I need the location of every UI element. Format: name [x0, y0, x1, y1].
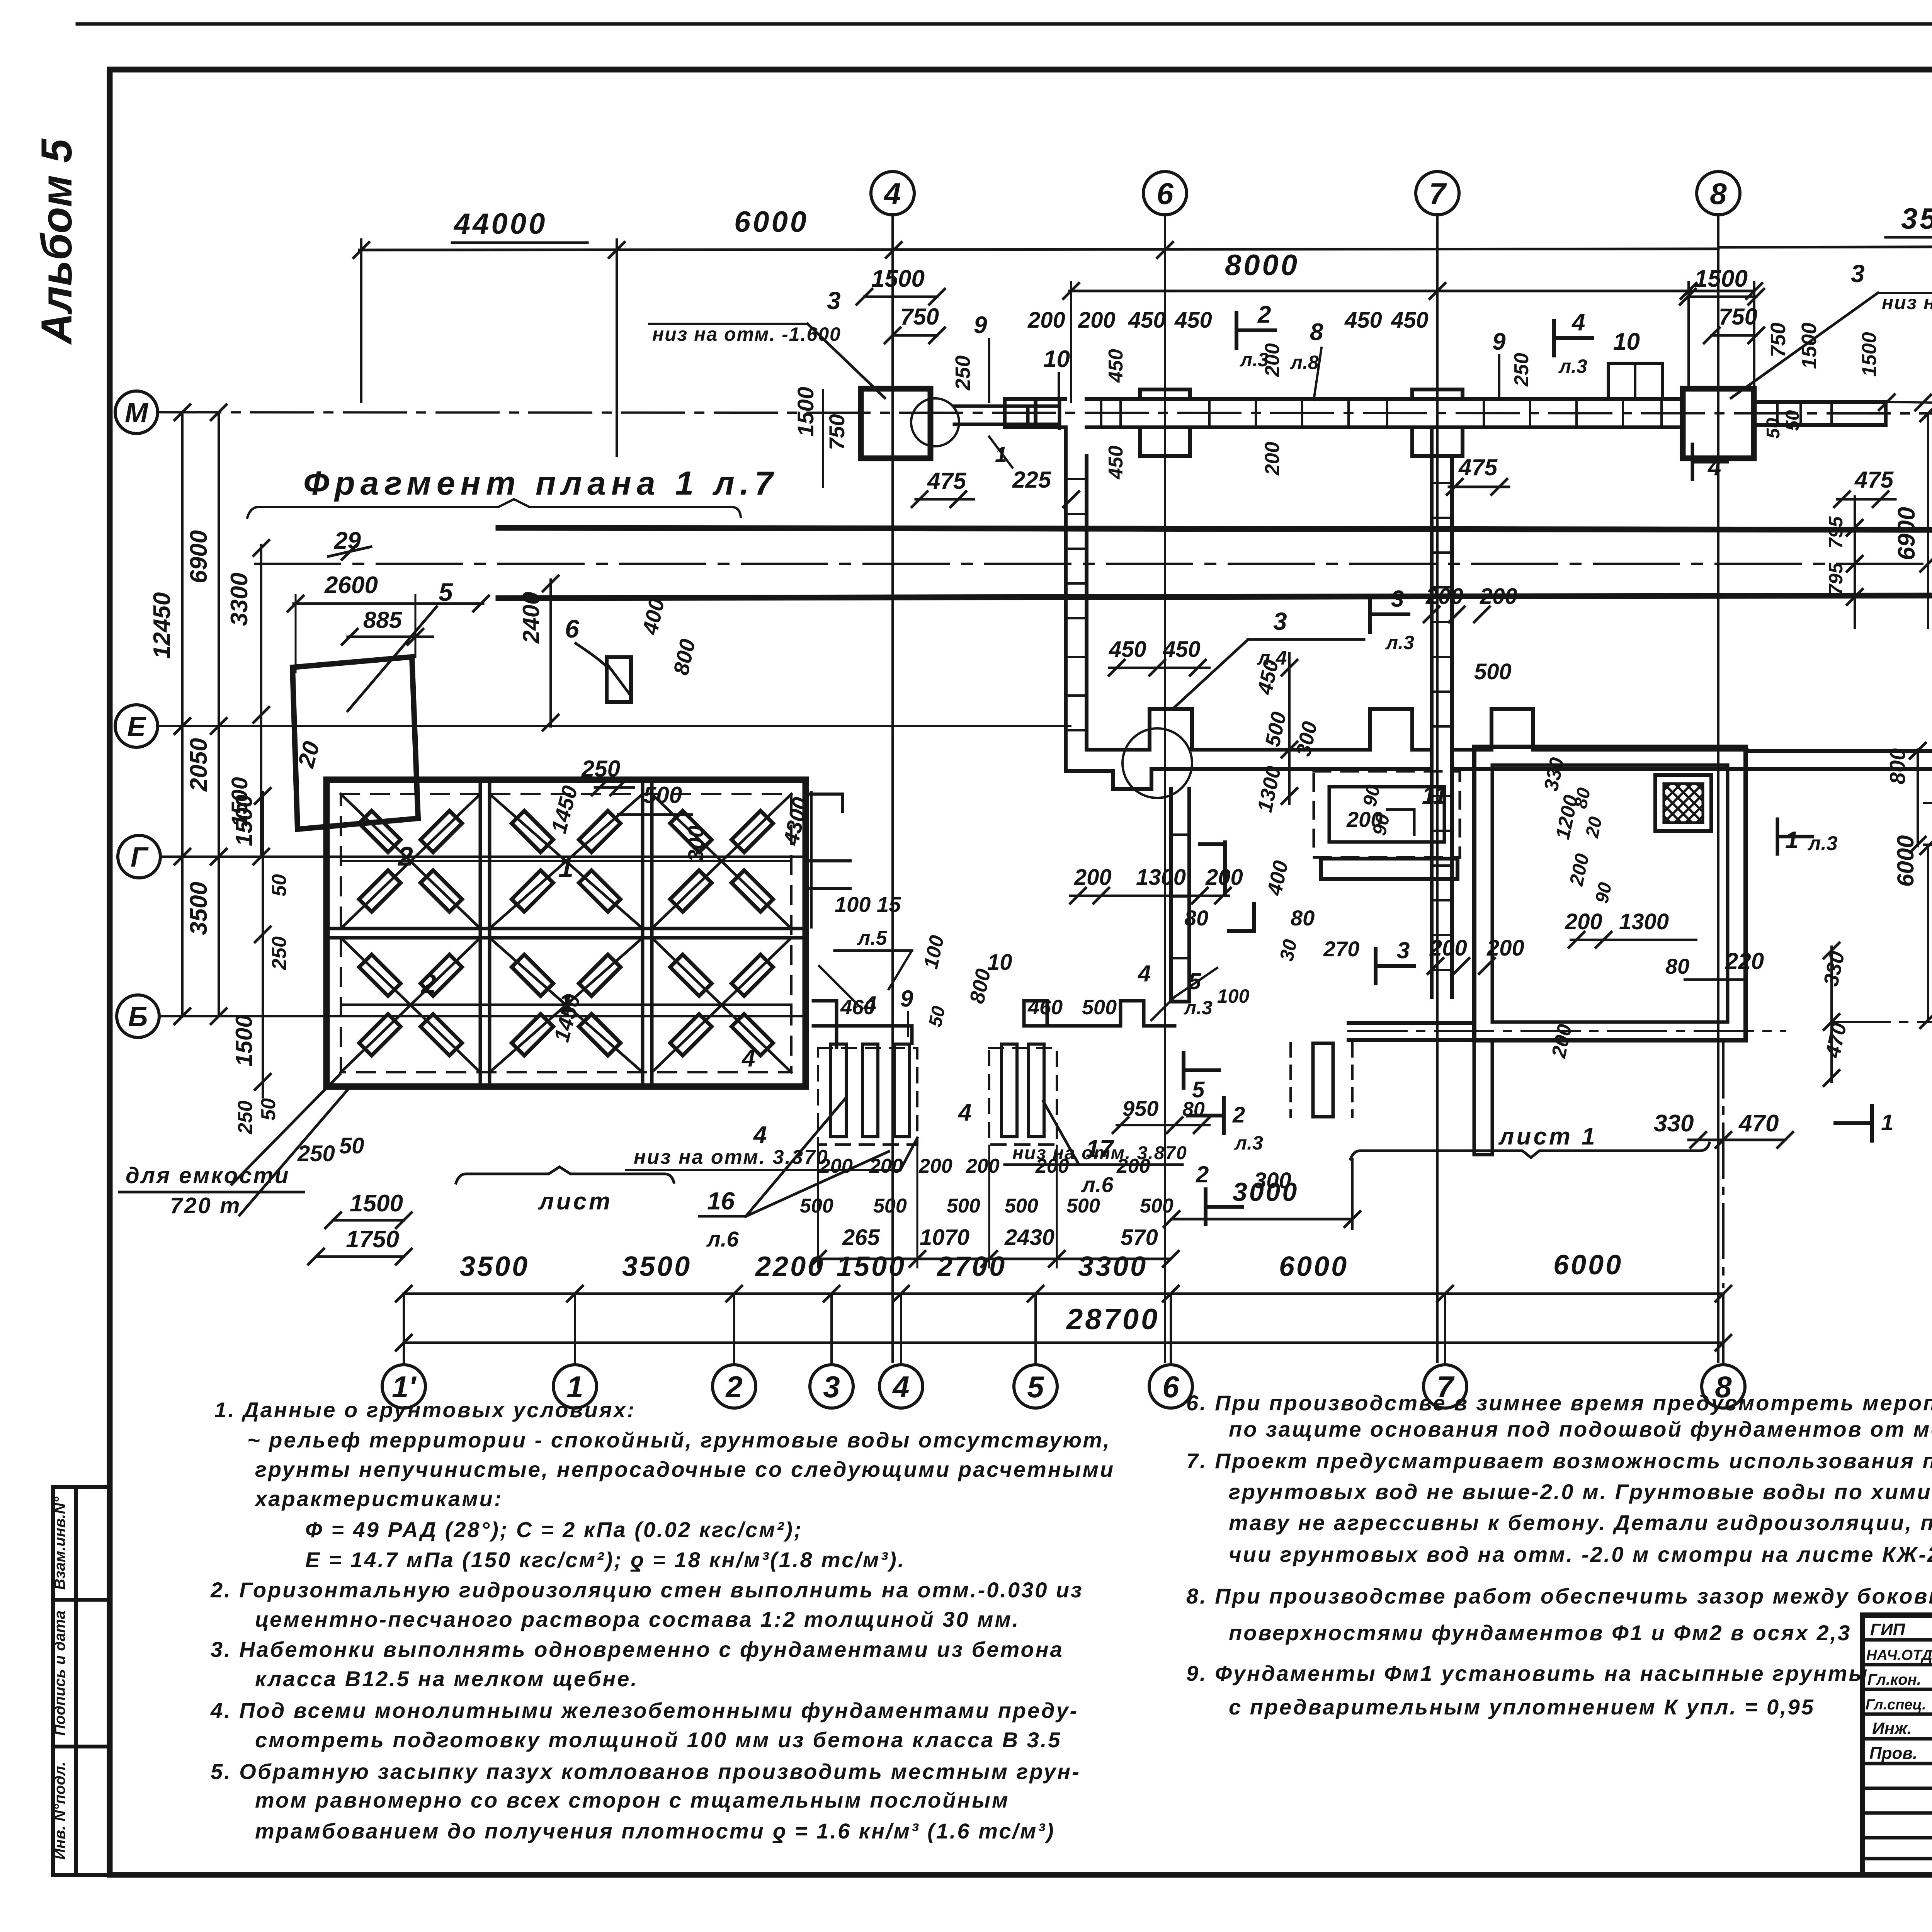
dim chain top 44000/6000 — [359, 249, 1718, 250]
svg-text:1: 1 — [558, 853, 573, 883]
svg-text:200: 200 — [1027, 308, 1065, 333]
svg-text:250: 250 — [581, 756, 620, 782]
svg-text:450: 450 — [1128, 308, 1166, 333]
svg-text:475: 475 — [927, 468, 967, 494]
svg-text:3: 3 — [827, 287, 841, 315]
svg-text:1500: 1500 — [793, 387, 818, 437]
svg-text:800: 800 — [1885, 748, 1910, 784]
svg-text:100 15: 100 15 — [835, 892, 901, 917]
svg-text:по защите основания под по: по защите основания под подошвой фундаме… — [1229, 1417, 1932, 1441]
foundation F1 square at axis 8 — [1683, 389, 1754, 458]
1500 dims left of M right circle — [1887, 402, 1932, 403]
svg-text:450: 450 — [1105, 349, 1127, 383]
svg-text:л.3: л.3 — [1184, 997, 1213, 1019]
svg-text:3: 3 — [823, 1370, 840, 1404]
svg-text:3500: 3500 — [622, 1251, 692, 1282]
svg-text:250: 250 — [234, 1100, 257, 1134]
axis circle 5 bottom — [1014, 1365, 1057, 1408]
svg-text:5: 5 — [1027, 1370, 1044, 1404]
svg-text:2: 2 — [1196, 1162, 1209, 1187]
svg-text:трамбованием до получения п: трамбованием до получения плотности ƍ = … — [255, 1819, 1055, 1843]
corner mark — [1200, 842, 1254, 931]
title block outer — [1862, 1615, 1932, 1875]
svg-text:720 т: 720 т — [170, 1193, 241, 1218]
svg-text:28700: 28700 — [1066, 1303, 1160, 1336]
svg-text:1500: 1500 — [227, 777, 252, 827]
room foundation walls axes 7-8 — [1474, 747, 1746, 1040]
notes column 2 — [1186, 1391, 1932, 1719]
dim chain 8000 between axes 6-7 — [1070, 290, 1754, 293]
svg-text:том равномерно со всех сто: том равномерно со всех сторон с тщательн… — [255, 1788, 1009, 1812]
svg-text:3: 3 — [1391, 586, 1404, 612]
tank foundation inner dashed — [341, 794, 791, 1072]
strip foundation row M main — [1087, 399, 1682, 427]
svg-text:смотреть подготовку толщиной: смотреть подготовку толщиной 100 мм из б… — [255, 1728, 1062, 1752]
svg-text:250: 250 — [951, 355, 975, 391]
axis E horizontal line — [158, 725, 1070, 727]
svg-text:450: 450 — [1174, 308, 1212, 333]
svg-text:6000: 6000 — [1553, 1250, 1623, 1281]
svg-text:8: 8 — [1715, 1370, 1732, 1404]
svg-text:с предварительным уплотнение: с предварительным уплотнением К упл. = 0… — [1229, 1695, 1815, 1719]
svg-text:3300: 3300 — [1078, 1251, 1148, 1282]
svg-text:450: 450 — [1391, 308, 1429, 333]
svg-text:1': 1' — [392, 1370, 417, 1404]
dim chain top right 3500/5000 — [1718, 246, 1932, 247]
small pit walls below tank right — [813, 1001, 912, 1047]
svg-text:Г: Г — [131, 842, 149, 873]
pit left wall ties — [1066, 479, 1087, 730]
svg-text:200: 200 — [1346, 807, 1383, 832]
svg-text:200: 200 — [1425, 584, 1463, 609]
svg-text:1300: 1300 — [1619, 909, 1669, 934]
tank cell diagonals — [341, 794, 791, 1072]
svg-text:80: 80 — [1665, 954, 1689, 978]
svg-text:л.3: л.3 — [1558, 355, 1587, 377]
svg-text:грунтовых вод не выше-2.0 м: грунтовых вод не выше-2.0 м. Грунтовые в… — [1229, 1480, 1932, 1504]
svg-text:характеристиками:: характеристиками: — [254, 1486, 503, 1511]
svg-text:11: 11 — [1422, 782, 1447, 809]
svg-text:Е = 14.7 мПа (150 кгс/см²);: Е = 14.7 мПа (150 кгс/см²); ƍ = 18 кн/м³… — [305, 1548, 905, 1572]
svg-text:2050: 2050 — [185, 738, 212, 792]
svg-text:200: 200 — [869, 1155, 903, 1177]
svg-text:9: 9 — [1492, 328, 1506, 355]
svg-text:Подпись и дата: Подпись и дата — [51, 1611, 68, 1736]
svg-text:5. Обратную засыпку пазух: 5. Обратную засыпку пазух котлованов про… — [211, 1759, 1081, 1784]
svg-text:220: 220 — [1725, 948, 1764, 974]
svg-text:500: 500 — [873, 1195, 907, 1217]
svg-text:6000: 6000 — [734, 206, 809, 238]
svg-text:10: 10 — [1613, 328, 1640, 355]
svg-text:200: 200 — [918, 1155, 952, 1177]
svg-text:низ на отм. -1.600: низ на отм. -1.600 — [652, 323, 841, 345]
axis A line — [1832, 1021, 1932, 1023]
svg-text:795: 795 — [1825, 562, 1847, 595]
pit bottom wall with bump — [1087, 709, 1432, 750]
svg-text:80: 80 — [1291, 906, 1315, 930]
svg-text:200: 200 — [1261, 343, 1284, 377]
svg-text:200: 200 — [966, 1155, 1000, 1177]
svg-text:Инж.: Инж. — [1872, 1719, 1912, 1738]
svg-text:750: 750 — [825, 414, 849, 450]
svg-text:Гл.кон.: Гл.кон. — [1867, 1671, 1921, 1688]
svg-text:1500: 1500 — [871, 265, 925, 292]
svg-text:1500: 1500 — [1694, 265, 1748, 292]
svg-text:2: 2 — [1257, 301, 1271, 328]
axis circle 1 bottom — [553, 1365, 597, 1408]
svg-text:470: 470 — [1738, 1110, 1779, 1137]
svg-text:л.6: л.6 — [1081, 1172, 1114, 1197]
svg-text:475: 475 — [1854, 467, 1894, 493]
svg-text:1500: 1500 — [350, 1190, 403, 1217]
svg-text:270: 270 — [1323, 937, 1359, 961]
svg-text:5: 5 — [1188, 968, 1202, 994]
svg-text:4: 4 — [957, 1099, 971, 1126]
svg-text:9. Фундаменты Фм1 установи: 9. Фундаменты Фм1 установить на насыпные… — [1186, 1661, 1869, 1685]
section flag 3 200 200 (upper) — [1370, 597, 1408, 632]
axis B horizontal line — [160, 1015, 808, 1017]
tank cell dividers — [327, 780, 806, 1087]
svg-text:460: 460 — [840, 996, 875, 1019]
svg-text:2. Горизонтальную гидроизоляц: 2. Горизонтальную гидроизоляцию стен вып… — [210, 1578, 1083, 1602]
svg-text:НАЧ.ОТД: НАЧ.ОТД — [1866, 1647, 1932, 1663]
svg-text:300: 300 — [1254, 1168, 1291, 1193]
svg-text:Б: Б — [128, 1002, 148, 1032]
svg-text:поверхностями фундаментов Ф1: поверхностями фундаментов Ф1 и Фм2 в ося… — [1229, 1621, 1851, 1645]
svg-text:500: 500 — [800, 1195, 833, 1217]
svg-text:475: 475 — [1458, 454, 1498, 480]
svg-text:4: 4 — [892, 1370, 909, 1404]
hatched pit inside room — [1655, 775, 1711, 831]
svg-text:6: 6 — [565, 614, 580, 643]
axis 7 wall ties — [1432, 483, 1452, 970]
piles below room axis 7 — [1474, 1040, 1492, 1155]
title block signature table rows — [1862, 1638, 1932, 1642]
svg-text:2400: 2400 — [518, 592, 544, 644]
axis circle 8 top — [1697, 172, 1740, 215]
svg-text:грунты непучинистые, непроса: грунты непучинистые, непросадочные со сл… — [255, 1457, 1115, 1481]
svg-text:500: 500 — [1066, 1195, 1100, 1217]
svg-text:44000: 44000 — [453, 207, 547, 240]
svg-text:750: 750 — [1767, 323, 1790, 357]
svg-text:4: 4 — [753, 1122, 767, 1148]
rail line 2 — [498, 595, 1932, 598]
walls piece with 460 500 — [1024, 1001, 1175, 1026]
svg-text:1: 1 — [1881, 1110, 1893, 1135]
tank right side step walls — [806, 794, 850, 889]
small rect above strip (axis 7-8) — [1608, 363, 1662, 399]
svg-text:200: 200 — [1565, 909, 1602, 934]
svg-text:9: 9 — [900, 986, 913, 1012]
svg-text:л.5: л.5 — [857, 927, 888, 949]
room 11 dashed foundation — [1314, 771, 1460, 857]
svg-text:8: 8 — [1310, 319, 1323, 345]
svg-text:чии грунтовых вод на отм.: чии грунтовых вод на отм. -2.0 м смотри … — [1229, 1542, 1932, 1566]
svg-text:6900: 6900 — [185, 530, 212, 583]
axis circle М left — [115, 391, 158, 434]
svg-text:7: 7 — [1429, 177, 1447, 211]
axis circle 2 bottom — [713, 1365, 756, 1408]
svg-text:л.3: л.3 — [1234, 1132, 1263, 1154]
axis circle 7 bottom — [1423, 1365, 1467, 1408]
axis circle 4 top — [871, 172, 914, 215]
svg-text:200: 200 — [819, 1155, 853, 1177]
svg-text:450: 450 — [1163, 637, 1201, 662]
svg-text:750: 750 — [1719, 304, 1757, 330]
svg-text:3: 3 — [1273, 607, 1287, 635]
svg-text:4: 4 — [1707, 454, 1721, 481]
svg-text:6. При производстве в зим: 6. При производстве в зимнее время преду… — [1186, 1391, 1932, 1415]
svg-text:М: М — [125, 398, 149, 429]
dims 3 200 200 lower — [1376, 949, 1414, 983]
svg-text:4: 4 — [1571, 309, 1585, 336]
room 11 lower wall — [1321, 859, 1458, 879]
strip bulges at axis 6 — [1140, 389, 1190, 456]
section flag 4 l.3 — [1554, 321, 1592, 355]
svg-text:1070: 1070 — [920, 1225, 969, 1250]
axis circle 4 bottom — [879, 1365, 923, 1408]
svg-text:Ф = 49 РАД (28°); С = 2 кП: Ф = 49 РАД (28°); С = 2 кПа (0.02 кгс/см… — [305, 1517, 803, 1542]
dlya emkosti label — [126, 1163, 290, 1218]
svg-text:12450: 12450 — [149, 592, 175, 659]
svg-text:750: 750 — [900, 304, 939, 330]
svg-text:8: 8 — [1710, 177, 1727, 211]
strip continuation to right edge of plan — [1746, 751, 1932, 769]
left chains x=472 x=566 x=676 — [181, 412, 184, 1016]
svg-text:Взам.инв.N°: Взам.инв.N° — [51, 1497, 68, 1590]
svg-text:6: 6 — [1162, 1370, 1179, 1404]
tank block horizontal mid lines — [341, 860, 791, 862]
svg-text:250: 250 — [1510, 353, 1533, 387]
svg-text:1750: 1750 — [346, 1226, 399, 1253]
pile group 17 dashed outline — [989, 1048, 1057, 1145]
svg-text:250: 250 — [268, 936, 291, 970]
axis circle Г left — [118, 835, 160, 878]
svg-text:200: 200 — [1486, 935, 1524, 961]
title block signature table columns — [1862, 1615, 1932, 1875]
svg-text:3500: 3500 — [460, 1251, 529, 1282]
svg-text:795: 795 — [1825, 516, 1847, 549]
vertical guide lines for pile dims — [817, 1146, 819, 1267]
foundation 6 small rect — [607, 657, 631, 702]
strip bulges at axis 7 — [1412, 389, 1463, 456]
svg-text:50: 50 — [268, 874, 291, 896]
svg-text:низ на отм. 3.370: низ на отм. 3.370 — [634, 1146, 829, 1168]
axis circle 6 top — [1143, 172, 1187, 215]
svg-text:885: 885 — [363, 607, 403, 633]
piles under axis 7 room — [1313, 1043, 1333, 1117]
svg-text:4. Под всеми монолитными: 4. Под всеми монолитными железобетонными… — [210, 1698, 1078, 1723]
svg-text:250: 250 — [297, 1141, 335, 1166]
tank foundation outer — [327, 780, 806, 1087]
room bottom wall extension left — [1349, 1023, 1474, 1040]
svg-text:3: 3 — [1851, 260, 1865, 287]
svg-text:Е: Е — [127, 711, 146, 742]
leader from tank corner — [232, 1074, 340, 1184]
section flag 2 bottom — [1188, 1098, 1224, 1133]
wall right of axis 7 with bump — [1452, 709, 1747, 750]
svg-text:6: 6 — [1156, 177, 1173, 211]
pile dim chain — [818, 1258, 1171, 1260]
svg-text:570: 570 — [1121, 1225, 1158, 1250]
svg-text:265: 265 — [842, 1225, 880, 1250]
svg-text:5: 5 — [1192, 1077, 1205, 1102]
svg-text:ГИП: ГИП — [1870, 1620, 1906, 1639]
svg-text:2: 2 — [420, 969, 436, 999]
axis circle 7 top — [1416, 172, 1459, 215]
svg-text:3. Набетонки выполнять одно: 3. Набетонки выполнять одновременно с фу… — [211, 1637, 1064, 1662]
svg-text:500: 500 — [643, 782, 682, 808]
axis 6 vertical line — [1164, 215, 1166, 1362]
svg-text:Фрагмент плана 1 л.7: Фрагмент плана 1 л.7 — [303, 465, 779, 502]
svg-text:6900: 6900 — [1893, 507, 1920, 560]
svg-text:500: 500 — [1082, 996, 1117, 1019]
tank pads (tilted) — [359, 811, 773, 1055]
svg-text:330: 330 — [1654, 1110, 1694, 1137]
svg-text:1300: 1300 — [1136, 865, 1186, 890]
axis 7 wall — [1432, 427, 1452, 997]
svg-text:л.6: л.6 — [706, 1227, 739, 1251]
svg-text:7: 7 — [1437, 1370, 1455, 1404]
svg-text:6000: 6000 — [1893, 835, 1918, 887]
svg-text:90: 90 — [1359, 783, 1384, 808]
pile bars group 16 — [831, 1044, 846, 1137]
svg-text:200: 200 — [1480, 584, 1517, 609]
pile bars group 17 — [1002, 1044, 1017, 1137]
svg-text:1: 1 — [558, 988, 573, 1018]
lower room left wall (axis 6 side) — [1171, 789, 1189, 1002]
svg-text:1500: 1500 — [231, 1015, 257, 1066]
svg-text:9: 9 — [974, 312, 987, 338]
svg-text:таву не агрессивны к бетон: таву не агрессивны к бетону. Детали гидр… — [1229, 1510, 1932, 1535]
svg-text:2200: 2200 — [755, 1251, 825, 1282]
notes column 1 — [210, 1398, 1115, 1843]
section flag 2 l.3 — [1236, 313, 1275, 348]
svg-text:класса В12.5 на мелком щ: класса В12.5 на мелком щебне. — [255, 1667, 638, 1691]
axis circle Е left — [115, 705, 158, 747]
svg-text:3300: 3300 — [226, 573, 253, 626]
underline for emkosti — [118, 1191, 305, 1194]
svg-text:200: 200 — [1429, 935, 1467, 961]
svg-text:3: 3 — [1397, 937, 1410, 963]
svg-text:4: 4 — [741, 1045, 755, 1072]
svg-text:20: 20 — [1582, 815, 1606, 840]
svg-text:4: 4 — [883, 177, 901, 211]
svg-text:л.3: л.3 — [1385, 632, 1414, 653]
svg-text:200: 200 — [1074, 865, 1112, 890]
svg-text:Пров.: Пров. — [1869, 1744, 1917, 1763]
svg-text:50: 50 — [257, 1098, 280, 1121]
svg-text:4: 4 — [1138, 961, 1151, 986]
svg-text:5: 5 — [439, 578, 453, 606]
svg-text:450: 450 — [1109, 637, 1146, 662]
svg-text:90: 90 — [1592, 881, 1616, 905]
vert guides — [295, 595, 297, 672]
svg-text:200: 200 — [1078, 308, 1116, 333]
axis circle 3 bottom — [810, 1365, 853, 1408]
svg-text:500: 500 — [1474, 659, 1512, 684]
svg-text:200: 200 — [1116, 1155, 1150, 1177]
axis M horizontal line — [158, 412, 1932, 413]
axis 4 vertical line — [891, 215, 894, 1362]
dim chain bottom row 1 — [404, 1293, 1723, 1295]
svg-text:460: 460 — [1027, 996, 1063, 1019]
pit left wall — [1066, 427, 1087, 771]
svg-text:2: 2 — [725, 1370, 742, 1404]
svg-text:50: 50 — [925, 1004, 949, 1029]
svg-text:1500: 1500 — [1858, 332, 1881, 377]
svg-text:225: 225 — [1012, 467, 1052, 493]
svg-text:50: 50 — [1763, 418, 1784, 439]
svg-text:л.8: л.8 — [1290, 352, 1319, 373]
svg-text:500: 500 — [947, 1195, 980, 1217]
svg-text:200: 200 — [1205, 865, 1243, 890]
skewed slab near axis 1 — [293, 657, 418, 829]
svg-text:500: 500 — [1005, 1195, 1038, 1217]
flag 5 below — [1184, 1053, 1219, 1088]
axis circle 1' bottom — [382, 1365, 425, 1408]
svg-text:3500: 3500 — [185, 882, 212, 935]
svg-text:Альбом 5: Альбом 5 — [32, 138, 81, 345]
axis 8 vertical line — [1717, 215, 1719, 1362]
axis circle Б left — [117, 995, 159, 1037]
bar east of F1 — [954, 402, 1060, 428]
svg-text:300: 300 — [684, 826, 708, 862]
svg-text:1: 1 — [566, 1370, 583, 1404]
svg-text:лист 1: лист 1 — [1498, 1123, 1597, 1150]
svg-text:2600: 2600 — [324, 572, 378, 599]
svg-text:50: 50 — [339, 1133, 364, 1158]
svg-text:лист: лист — [538, 1188, 612, 1215]
left stamp column boxes — [53, 1487, 109, 1875]
svg-text:1500: 1500 — [837, 1251, 906, 1282]
svg-text:6000: 6000 — [1279, 1251, 1349, 1282]
svg-text:низ на отм. -1.600: низ на отм. -1.600 — [1882, 292, 1932, 313]
strip foundation row M left segment — [1005, 399, 1065, 427]
svg-text:200: 200 — [1261, 442, 1284, 476]
axis 7 vertical line — [1436, 215, 1439, 1362]
svg-text:8. При производстве работ: 8. При производстве работ обеспечить заз… — [1186, 1584, 1932, 1608]
svg-text:80: 80 — [1570, 786, 1595, 811]
circle detail at F1 — [911, 398, 959, 446]
svg-text:2430: 2430 — [1004, 1225, 1054, 1250]
section flag 1 bottom right — [1835, 1106, 1872, 1141]
rail line 1 — [498, 528, 1932, 530]
svg-text:Инв. N°подл.: Инв. N°подл. — [51, 1762, 68, 1860]
svg-text:30: 30 — [1276, 937, 1301, 963]
strip right of axis 8 — [1754, 402, 1886, 425]
signature rows text — [1866, 1620, 1932, 1763]
strip ties — [1101, 399, 1662, 427]
vertical dim line near 4800 with 795 795 — [1854, 497, 1856, 628]
svg-text:450: 450 — [1105, 446, 1127, 480]
callout circle corner axis 6 — [1122, 728, 1192, 798]
rail track axis — [255, 563, 1932, 565]
svg-text:200: 200 — [1035, 1155, 1069, 1177]
svg-text:450: 450 — [1344, 308, 1382, 333]
sheet top edge line — [77, 22, 1932, 26]
svg-text:Гл.спец.: Гл.спец. — [1866, 1697, 1926, 1713]
foundation F1 square at axis 4 — [861, 389, 930, 458]
svg-text:16: 16 — [707, 1187, 735, 1215]
svg-text:500: 500 — [1140, 1195, 1173, 1217]
svg-text:8000: 8000 — [1225, 249, 1299, 282]
svg-text:2: 2 — [397, 841, 413, 871]
pile group 16 dashed outline — [818, 1048, 917, 1145]
svg-text:1: 1 — [1785, 827, 1798, 854]
svg-text:17: 17 — [1086, 1135, 1115, 1163]
axis circle 8 bottom — [1702, 1365, 1745, 1408]
